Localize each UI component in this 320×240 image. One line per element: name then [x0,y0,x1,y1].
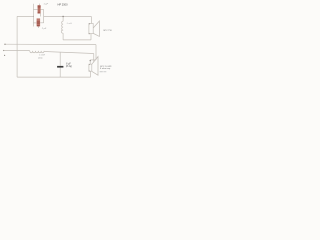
svg-text:(1.5): (1.5) [38,57,43,59]
svg-text:(8.2µ): (8.2µ) [66,66,72,68]
svg-text:.1 mH: .1 mH [66,23,72,25]
svg-text:SPC TW: SPC TW [103,30,112,32]
svg-text:8 ohm imp: 8 ohm imp [100,68,111,70]
svg-text:1 µF: 1 µF [44,4,49,6]
svg-text:1 µF: 1 µF [42,28,47,30]
svg-text:HP 2500: HP 2500 [58,3,69,7]
svg-text:1.5mH: 1.5mH [39,55,46,57]
